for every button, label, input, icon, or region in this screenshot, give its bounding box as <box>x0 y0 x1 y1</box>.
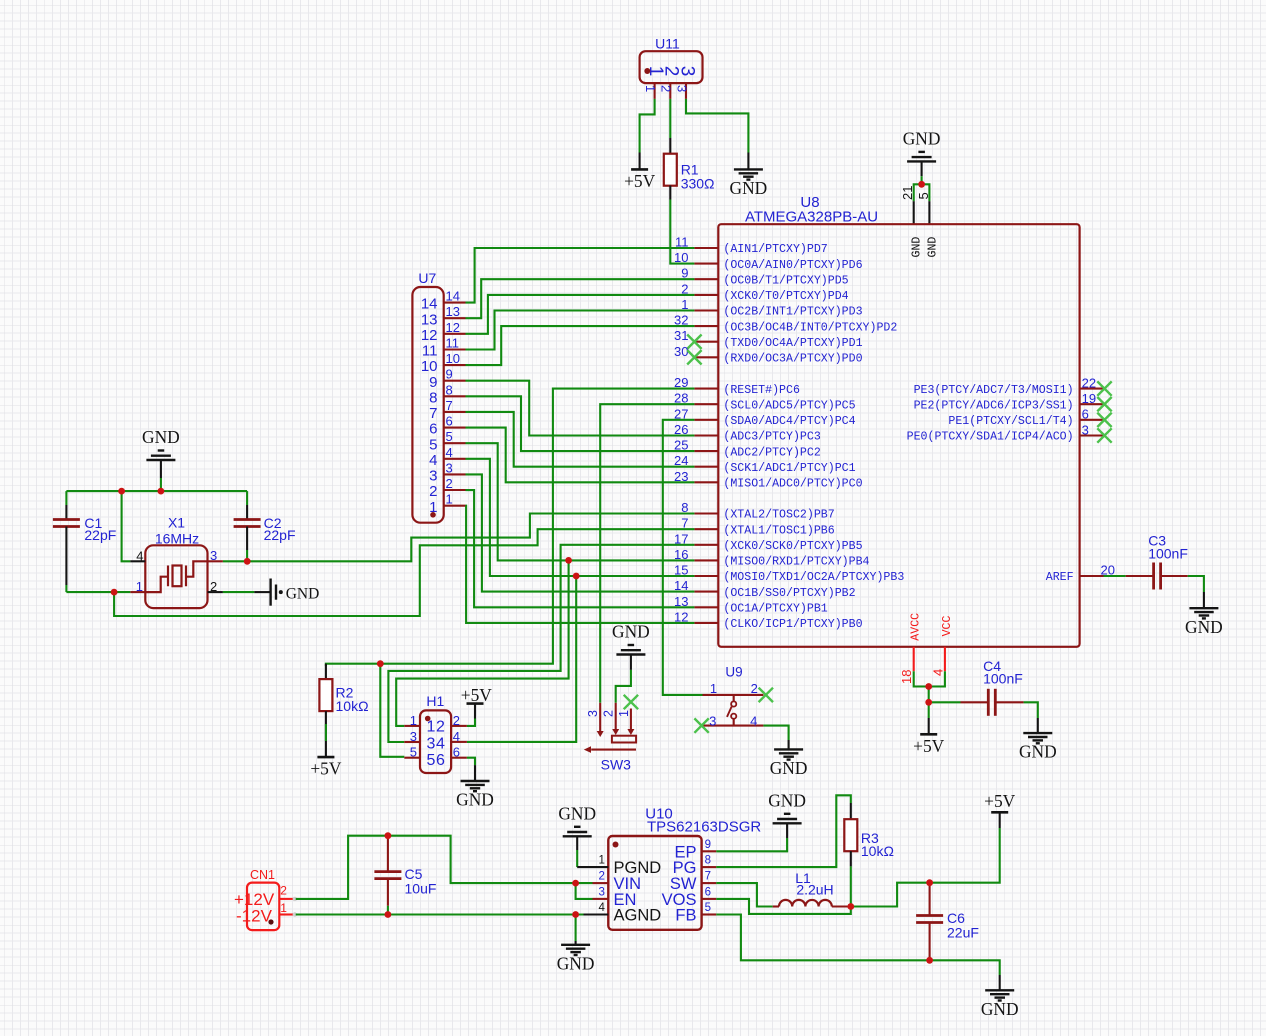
U8 pin 17 (XCK0/SCK0/PTCXY)PB5 <box>674 531 863 553</box>
svg-text:9: 9 <box>705 839 711 851</box>
svg-text:2: 2 <box>446 476 453 491</box>
wire X1.1 C1 net <box>66 591 130 593</box>
svg-text:2: 2 <box>659 85 674 92</box>
svg-text:U7: U7 <box>418 270 436 286</box>
svg-text:GND: GND <box>1185 617 1223 637</box>
U7 pin 3 <box>429 460 465 484</box>
svg-text:1: 1 <box>429 499 437 516</box>
svg-text:AVCC: AVCC <box>910 613 923 641</box>
svg-text:(ADC2/PTCY)PC2: (ADC2/PTCY)PC2 <box>723 446 820 459</box>
wire GND to U8 pins 21 5 <box>914 161 930 201</box>
junction (C4 branch) <box>925 699 932 706</box>
junction (L1 out) <box>847 903 854 910</box>
svg-text:+5V: +5V <box>310 759 342 779</box>
wire U11.1 to +5V <box>640 99 655 153</box>
svg-text:(XTAL1/TOSC1)PB6: (XTAL1/TOSC1)PB6 <box>723 524 834 537</box>
U8 pin 23 (MISO1/ADC0/PTCY)PC0 <box>674 469 863 491</box>
svg-text:U9: U9 <box>725 665 742 680</box>
wire U9.4 to GND <box>763 726 788 750</box>
ground flag GND (X1.2) <box>223 579 319 606</box>
svg-text:8: 8 <box>429 389 437 406</box>
svg-text:14: 14 <box>421 296 438 313</box>
svg-text:+5V: +5V <box>624 171 656 191</box>
junction (EN to VIN) <box>572 880 579 887</box>
svg-text:(AIN1/PTCXY)PD7: (AIN1/PTCXY)PD7 <box>723 243 827 256</box>
svg-text:8: 8 <box>705 855 711 867</box>
svg-text:21: 21 <box>900 186 915 200</box>
svg-text:(ADC3/PTCY)PC3: (ADC3/PTCY)PC3 <box>723 431 820 444</box>
wire CN1.2 to VIN <box>296 836 593 899</box>
U8 pin 27 (SDA0/ADC4/PTCY)PC4 <box>674 406 856 428</box>
svg-text:GND: GND <box>142 427 180 447</box>
svg-text:PE3(PTCY/ADC7/T3/MOSI1): PE3(PTCY/ADC7/T3/MOSI1) <box>914 384 1074 397</box>
ground GND (AGND) <box>557 945 595 974</box>
svg-text:10: 10 <box>421 358 438 375</box>
power +5V (R2) <box>310 757 342 779</box>
svg-text:10: 10 <box>674 250 688 265</box>
wire R1 to U8.10 PD6 <box>670 200 694 264</box>
svg-text:1: 1 <box>410 713 417 728</box>
svg-text:(SDA0/ADC4/PTCY)PC4: (SDA0/ADC4/PTCY)PC4 <box>723 415 855 428</box>
svg-text:6: 6 <box>1082 407 1089 422</box>
svg-text:GND: GND <box>456 790 494 810</box>
svg-text:TPS62163DSGR: TPS62163DSGR <box>647 819 761 836</box>
U8 pin 7 (XTAL1/TOSC1)PB6 <box>681 516 834 538</box>
ground GND (H1) <box>456 781 494 810</box>
svg-text:GND: GND <box>612 622 650 642</box>
svg-text:2: 2 <box>436 718 445 735</box>
U7 pin 8 <box>429 382 465 406</box>
regulator U10 TPS62163DSGR <box>608 806 761 930</box>
U8 pin 21 GND <box>900 186 915 225</box>
wire GND net C1 to C2 <box>66 490 247 492</box>
junction (C5 bottom) <box>385 911 392 918</box>
U8 pin 9 (OC0B/T1/PTCXY)PD5 <box>681 266 848 288</box>
U7 pin 10 <box>421 351 466 375</box>
svg-text:3: 3 <box>598 886 604 898</box>
capacitor C6 <box>916 883 979 961</box>
svg-text:(SCL0/ADC5/PTCY)PC5: (SCL0/ADC5/PTCY)PC5 <box>723 399 855 412</box>
svg-text:9: 9 <box>446 367 453 382</box>
svg-text:3: 3 <box>429 468 437 485</box>
svg-text:3: 3 <box>210 548 217 563</box>
svg-text:22uF: 22uF <box>947 925 979 941</box>
svg-text:(OC1A/PTCXY)PB1: (OC1A/PTCXY)PB1 <box>723 603 827 616</box>
resistor R3 <box>844 803 894 866</box>
wire SCK U8.17 to H1.3 <box>388 545 694 742</box>
H1 pin 4 <box>451 729 467 744</box>
svg-text:(OC0A/AIN0/PTCXY)PD6: (OC0A/AIN0/PTCXY)PD6 <box>723 259 862 272</box>
resistor R1 <box>664 138 715 200</box>
svg-text:+5V: +5V <box>913 736 945 756</box>
svg-text:GND: GND <box>557 953 595 973</box>
U8 pin 32 (OC3B/OC4B/INT0/PTCXY)PD2 <box>674 313 897 335</box>
svg-text:VCC: VCC <box>941 615 954 636</box>
wire X1.4 to GND net <box>122 491 131 561</box>
svg-text:7: 7 <box>446 398 453 413</box>
U7 pin 7 <box>429 398 465 422</box>
svg-text:6: 6 <box>429 421 437 438</box>
svg-text:(MISO0/RXD1/PTCXY)PB4: (MISO0/RXD1/PTCXY)PB4 <box>723 556 869 569</box>
connector U7 <box>412 270 443 523</box>
svg-text:GND: GND <box>926 237 939 258</box>
svg-text:AREF: AREF <box>1046 571 1074 584</box>
junction (GND stem) <box>158 488 165 495</box>
U8 pin 6 PE1(PTCXY/SCL1/T4) no-connect <box>948 407 1111 428</box>
wire C3 to GND <box>1203 592 1205 608</box>
svg-text:5: 5 <box>410 745 417 760</box>
no-connect U9.3 <box>694 718 708 732</box>
U10 pin 7 SW <box>702 871 717 884</box>
svg-text:9: 9 <box>429 374 437 391</box>
power +5V (U11) <box>624 169 656 191</box>
U8 pin 24 (SCK1/ADC1/PTCY)PC1 <box>674 453 856 475</box>
svg-text:ATMEGA328PB-AU: ATMEGA328PB-AU <box>745 209 878 226</box>
svg-text:22pF: 22pF <box>264 527 296 543</box>
ground GND (above X1) <box>142 427 180 460</box>
junction (C5 top) <box>385 832 392 839</box>
wire MISO branch to H1.1 <box>396 560 568 726</box>
svg-text:1: 1 <box>710 681 717 696</box>
U10 pin 2 VIN <box>593 871 609 884</box>
wire SCL U8.28 to SW3.3 <box>600 404 694 703</box>
svg-text:GND: GND <box>1019 742 1057 762</box>
U11 pin 3 <box>674 83 689 99</box>
U8 pin 22 PE3(PTCY/ADC7/T3/MOSI1) no-connect <box>914 375 1112 396</box>
crystal X1 <box>145 515 207 609</box>
svg-text:22: 22 <box>1082 375 1096 390</box>
svg-text:7: 7 <box>429 405 437 422</box>
connector H1 <box>420 693 451 773</box>
svg-text:2.2uH: 2.2uH <box>796 882 833 898</box>
no-connect U9.2 <box>759 688 773 702</box>
svg-text:4: 4 <box>429 452 437 469</box>
svg-text:H1: H1 <box>426 693 444 709</box>
svg-text:SW3: SW3 <box>601 757 632 773</box>
wire U7.10 to U8.32 PD2 <box>466 326 695 365</box>
wire H1.6 to GND <box>467 758 475 781</box>
svg-text:2: 2 <box>429 483 437 500</box>
svg-text:3: 3 <box>446 460 453 475</box>
svg-text:3: 3 <box>427 735 436 752</box>
capacitor C1 <box>53 491 116 592</box>
svg-text:13: 13 <box>421 311 438 328</box>
svg-text:5: 5 <box>427 752 436 769</box>
U8 pin 28 (SCL0/ADC5/PTCY)PC5 <box>674 391 856 413</box>
U7 pin 1 <box>429 492 465 516</box>
svg-text:10kΩ: 10kΩ <box>336 698 369 714</box>
capacitor C2 <box>234 491 296 561</box>
svg-text:4: 4 <box>598 902 605 914</box>
svg-text:PE0(PTCXY/SDA1/ICP4/ACO): PE0(PTCXY/SDA1/ICP4/ACO) <box>907 431 1074 444</box>
U8 pin 26 (ADC3/PTCY)PC3 <box>674 422 821 444</box>
wire C4 to GND <box>1037 718 1039 733</box>
no-connect SW3.1 <box>624 695 638 709</box>
svg-text:(XCK0/SCK0/PTCXY)PB5: (XCK0/SCK0/PTCXY)PB5 <box>723 540 862 553</box>
wire GND to SW3.2 <box>616 655 631 703</box>
U8 pin 2 (XCK0/T0/PTCXY)PD4 <box>681 281 848 303</box>
svg-text:2: 2 <box>210 579 217 594</box>
svg-text:CN1: CN1 <box>250 868 275 882</box>
svg-text:18: 18 <box>899 670 914 684</box>
wire XTAL1 X1.1 to U8.7 <box>114 529 694 616</box>
junction (C6 top) <box>926 879 933 886</box>
wire H1.2 to +5V <box>467 704 475 726</box>
svg-text:(RXD0/OC3A/PTCXY)PD0: (RXD0/OC3A/PTCXY)PD0 <box>723 353 862 366</box>
svg-text:1: 1 <box>643 85 658 92</box>
svg-text:GND: GND <box>770 758 808 778</box>
U8 pin 1 (OC2B/INT1/PTCXY)PD3 <box>681 297 862 319</box>
svg-text:3: 3 <box>709 713 716 728</box>
svg-text:7: 7 <box>705 871 711 883</box>
capacitor C4 <box>929 658 1038 718</box>
junction (XTAL2 net) <box>244 558 251 565</box>
svg-text:31: 31 <box>674 328 688 343</box>
wire R3 to L1 node <box>850 866 852 906</box>
svg-text:330Ω: 330Ω <box>681 175 715 191</box>
svg-text:10: 10 <box>446 351 460 366</box>
wire U7.12 to U8.2 PD4 <box>466 295 695 334</box>
svg-text:10kΩ: 10kΩ <box>861 843 894 859</box>
power +5V (AVCC) <box>913 734 945 756</box>
CN1 pin 1 <box>279 912 297 916</box>
H1 pin 1 <box>404 713 420 728</box>
svg-text:PE2(PTCY/ADC6/ICP3/SS1): PE2(PTCY/ADC6/ICP3/SS1) <box>914 399 1074 412</box>
svg-text:4: 4 <box>446 445 453 460</box>
svg-text:(CLKO/ICP1/PTCXY)PB0: (CLKO/ICP1/PTCXY)PB0 <box>723 618 862 631</box>
wire U7.5 to U8.16 PB4 MISO <box>466 443 695 560</box>
wire to +5V (AVCC) <box>928 702 930 734</box>
op-amp U8 ATMEGA328PB-AU body <box>718 194 1079 647</box>
wire PG to R3 <box>716 795 851 867</box>
U7 pin 5 <box>429 429 465 453</box>
svg-text:100nF: 100nF <box>1148 546 1188 562</box>
wire RESET branch to H1.5 <box>380 664 404 757</box>
U8 pin 29 (RESET#)PC6 <box>674 375 800 397</box>
svg-text:5: 5 <box>916 192 931 199</box>
power +5V (output) <box>984 791 1016 812</box>
ground GND (above U10) <box>558 803 596 836</box>
svg-text:2: 2 <box>598 871 604 883</box>
svg-text:(SCK1/ADC1/PTCY)PC1: (SCK1/ADC1/PTCY)PC1 <box>723 462 855 475</box>
svg-text:14: 14 <box>446 289 460 304</box>
switch SW3 <box>584 703 636 773</box>
U8 pin 3 PE0(PTCXY/SDA1/ICP4/ACO) no-connect <box>907 422 1112 443</box>
svg-text:GND: GND <box>286 586 320 603</box>
junction (AGND to GND) <box>572 911 579 918</box>
svg-text:4: 4 <box>930 669 945 676</box>
svg-text:4: 4 <box>436 735 445 752</box>
ground GND (U11) <box>730 169 768 198</box>
ground GND (C4) <box>1019 733 1057 762</box>
svg-text:3: 3 <box>676 66 697 77</box>
svg-text:+5V: +5V <box>461 685 493 705</box>
ground GND (EP) <box>768 790 806 823</box>
svg-text:+5V: +5V <box>984 791 1016 811</box>
wire SW to L1 <box>716 883 772 906</box>
junction (MOSI branch) <box>573 573 580 580</box>
wire AGND to GND <box>575 915 577 945</box>
svg-text:12: 12 <box>446 320 460 335</box>
U8 pin name GND 21 <box>911 237 924 258</box>
ground GND (SW3) <box>612 622 650 655</box>
H1 pin 2 <box>451 713 467 728</box>
U7 pin 11 <box>422 336 466 360</box>
ground GND (U9) <box>770 749 808 778</box>
wire RESET U8.29 to R2 <box>326 389 695 666</box>
wire EP to GND <box>716 823 787 851</box>
svg-text:100nF: 100nF <box>983 671 1023 687</box>
svg-text:19: 19 <box>1082 391 1096 406</box>
svg-text:6: 6 <box>446 414 453 429</box>
connector U11 <box>640 36 703 84</box>
power +5V (H1) <box>461 685 493 705</box>
svg-text:2: 2 <box>280 884 287 898</box>
svg-text:1: 1 <box>427 718 436 735</box>
ground GND (above U8) <box>903 128 941 161</box>
wire SDA U8.27 to U9.1 <box>663 420 703 695</box>
svg-text:(XCK0/T0/PTCXY)PD4: (XCK0/T0/PTCXY)PD4 <box>723 290 848 303</box>
wire U7.8 to U8.25 PC2 <box>466 396 695 451</box>
U10 pin 8 PG <box>702 855 717 868</box>
U8 pin 14 (OC1B/SS0/PTCXY)PB2 <box>674 578 856 600</box>
CN1 pin 2 <box>279 897 297 901</box>
svg-text:6: 6 <box>453 745 460 760</box>
svg-text:11: 11 <box>422 343 438 360</box>
svg-text:1: 1 <box>136 579 143 594</box>
U8 pin 12 (CLKO/ICP1/PTCXY)PB0 <box>674 609 863 631</box>
svg-text:3: 3 <box>586 710 600 717</box>
svg-text:3: 3 <box>674 85 689 92</box>
svg-text:2: 2 <box>751 681 758 696</box>
svg-text:5: 5 <box>429 436 437 453</box>
X1 pin 1 <box>130 579 145 594</box>
wire GND to PGND <box>576 836 578 867</box>
svg-text:(OC2B/INT1/PTCXY)PD3: (OC2B/INT1/PTCXY)PD3 <box>723 306 862 319</box>
svg-text:1: 1 <box>598 855 604 867</box>
wire U7.3 to U8.14 PB2 <box>466 474 695 591</box>
svg-text:8: 8 <box>446 382 453 397</box>
svg-text:(MISO1/ADC0/PTCY)PC0: (MISO1/ADC0/PTCY)PC0 <box>723 478 862 491</box>
H1 pin 5 <box>404 745 420 760</box>
svg-text:16MHz: 16MHz <box>155 531 199 547</box>
wire MOSI branch to H1.4 <box>467 576 576 742</box>
U11 pin 1 <box>643 83 658 99</box>
svg-text:GND: GND <box>730 178 768 198</box>
svg-text:6: 6 <box>705 886 711 898</box>
U7 pin 13 <box>421 304 466 328</box>
svg-text:22pF: 22pF <box>84 527 116 543</box>
wire GND stem to C1 C2 net <box>160 460 162 491</box>
wire AVCC down <box>928 687 930 703</box>
U7 pin 9 <box>429 367 465 391</box>
U7 pin 14 <box>421 289 466 313</box>
junction (C6 bottom) <box>926 957 933 964</box>
ground GND (C3) <box>1185 608 1223 637</box>
U8 pin 18 AVCC <box>899 613 923 684</box>
svg-text:6: 6 <box>436 752 445 769</box>
wire EN to VIN <box>576 883 593 899</box>
svg-text:10uF: 10uF <box>405 881 437 897</box>
X1 pin 2 <box>208 579 223 594</box>
svg-text:GND: GND <box>911 237 924 258</box>
U8 pin 13 (OC1A/PTCXY)PB1 <box>674 594 828 616</box>
connector CN1 <box>234 868 287 930</box>
svg-text:5: 5 <box>705 902 711 914</box>
inductor L1 <box>773 870 851 907</box>
U11 pin 2 <box>659 83 674 99</box>
svg-text:PE1(PTCXY/SCL1/T4): PE1(PTCXY/SCL1/T4) <box>948 415 1073 428</box>
junction (AVCC net) <box>925 683 932 690</box>
wire U7.6 to U8.23 PC0 <box>466 428 695 483</box>
U7 pin 12 <box>421 320 466 344</box>
U8 pin 20 AREF <box>1046 563 1115 585</box>
switch U9 <box>703 665 764 729</box>
U10 pin 6 VOS <box>702 886 717 899</box>
wire U7.14 to U8.11 PD7 <box>466 248 695 303</box>
wire U7.11 to U8.1 PD3 <box>466 311 695 350</box>
junction (MISO branch) <box>565 557 572 564</box>
U8 pin name GND 5 <box>926 237 939 258</box>
svg-text:(RESET#)PC6: (RESET#)PC6 <box>723 384 800 397</box>
svg-text:3: 3 <box>410 729 417 744</box>
svg-text:(OC1B/SS0/PTCXY)PB2: (OC1B/SS0/PTCXY)PB2 <box>723 587 855 600</box>
H1 pin 3 <box>404 729 420 744</box>
U10 pin 4 AGND <box>584 902 609 915</box>
U10 pin 3 EN <box>593 886 609 899</box>
svg-text:(TXD0/OC4A/PTCXY)PD1: (TXD0/OC4A/PTCXY)PD1 <box>723 337 862 350</box>
U8 pin 8 (XTAL2/TOSC2)PB7 <box>681 500 834 522</box>
svg-text:5: 5 <box>446 429 453 444</box>
svg-text:-12V: -12V <box>236 906 273 925</box>
wire U7.2 to U8.13 PB1 <box>466 490 695 607</box>
svg-text:FB: FB <box>675 907 696 925</box>
wire U7.7 to U8.24 PC1 <box>466 412 695 467</box>
wire CN1.1 to AGND <box>296 913 593 915</box>
U8 pin 5 GND <box>916 192 931 224</box>
svg-text:GND: GND <box>981 999 1019 1019</box>
X1 pin 4 <box>130 548 145 563</box>
svg-text:13: 13 <box>446 304 460 319</box>
svg-text:(OC3B/OC4B/INT0/PTCXY)PD2: (OC3B/OC4B/INT0/PTCXY)PD2 <box>723 321 897 334</box>
junction (GND pins) <box>918 181 925 188</box>
wire VOS to L1 node <box>716 899 851 914</box>
svg-text:GND: GND <box>768 790 806 810</box>
U8 pin 19 PE2(PTCY/ADC6/ICP3/SS1) no-connect <box>914 391 1112 412</box>
svg-text:GND: GND <box>903 128 941 148</box>
U8 pin 10 (OC0A/AIN0/PTCXY)PD6 <box>674 250 863 272</box>
svg-text:X1: X1 <box>168 515 185 531</box>
wire FB to GND rail <box>716 915 999 991</box>
U10 pin 1 PGND <box>577 855 608 868</box>
svg-text:1: 1 <box>617 710 631 717</box>
svg-text:(OC0B/T1/PTCXY)PD5: (OC0B/T1/PTCXY)PD5 <box>723 274 848 287</box>
U8 pin 15 (MOSI0/TXD1/OC2A/PTCXY)PB3 <box>674 563 904 585</box>
junction (XTAL1 net) <box>111 589 118 596</box>
svg-text:GND: GND <box>558 803 596 823</box>
svg-text:4: 4 <box>750 713 757 728</box>
svg-text:2: 2 <box>453 713 460 728</box>
U8 pin 25 (ADC2/PTCY)PC2 <box>674 438 821 460</box>
svg-text:(XTAL2/TOSC2)PB7: (XTAL2/TOSC2)PB7 <box>723 509 834 522</box>
capacitor C3 <box>1104 533 1204 593</box>
H1 pin 6 <box>451 745 467 760</box>
wire U7.4 to U8.15 PB3 MOSI <box>466 459 695 576</box>
resistor R2 <box>319 664 368 757</box>
svg-text:30: 30 <box>674 344 688 359</box>
wire U7.9 to U8.26 PC3 <box>466 381 695 436</box>
svg-text:U11: U11 <box>655 36 680 52</box>
